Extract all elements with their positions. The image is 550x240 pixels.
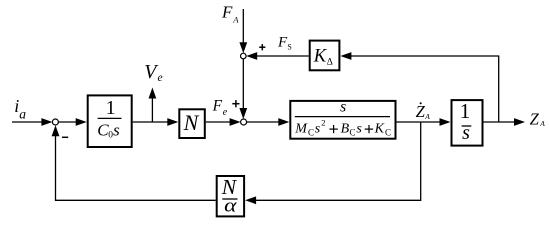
- svg-text:C: C: [385, 128, 391, 138]
- svg-text:A: A: [424, 112, 430, 121]
- svg-text:K: K: [313, 47, 328, 67]
- svg-text:C: C: [308, 128, 314, 138]
- svg-text:A: A: [539, 119, 545, 128]
- svg-text:e: e: [223, 107, 228, 118]
- svg-text:e: e: [158, 72, 163, 84]
- svg-text:K: K: [374, 122, 385, 137]
- svg-text:S: S: [287, 43, 291, 52]
- svg-text:1: 1: [106, 97, 116, 119]
- svg-text:C: C: [350, 128, 356, 138]
- svg-text:Z: Z: [416, 102, 426, 121]
- svg-text:B: B: [341, 122, 350, 137]
- svg-text:a: a: [19, 106, 26, 121]
- svg-text:s: s: [340, 98, 346, 115]
- svg-text:2: 2: [321, 118, 325, 128]
- svg-text:F: F: [277, 34, 288, 50]
- svg-text:α: α: [224, 196, 238, 217]
- svg-text:s: s: [356, 122, 362, 137]
- svg-text:A: A: [232, 15, 239, 25]
- svg-text:s: s: [462, 122, 470, 144]
- svg-text:1: 1: [460, 99, 471, 123]
- svg-text:F: F: [221, 3, 233, 22]
- svg-text:s: s: [113, 121, 120, 140]
- svg-text:Δ: Δ: [327, 58, 333, 68]
- svg-text:Z: Z: [530, 109, 540, 128]
- svg-text:s: s: [315, 122, 321, 137]
- svg-text:M: M: [294, 122, 308, 137]
- svg-text:N: N: [183, 110, 200, 135]
- svg-text:F: F: [212, 98, 223, 115]
